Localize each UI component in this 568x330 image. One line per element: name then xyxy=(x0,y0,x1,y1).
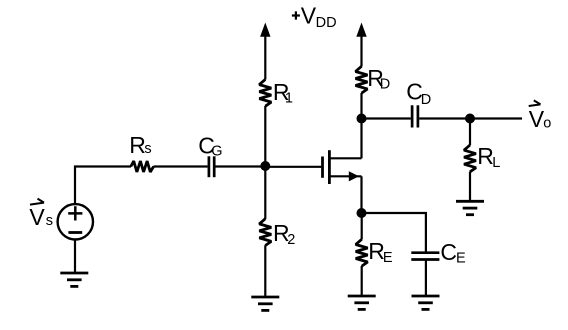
+VDD supply arrow right xyxy=(356,23,366,37)
label RL xyxy=(477,143,500,171)
resistor R1 wire lower segment xyxy=(264,106,266,167)
svg-text:G: G xyxy=(211,144,222,160)
svg-text:R: R xyxy=(129,132,146,158)
label CG xyxy=(198,132,222,159)
svg-text:1: 1 xyxy=(285,91,293,107)
MOSFET Q1 drain lead xyxy=(331,157,362,159)
label R2 xyxy=(273,220,295,248)
svg-text:D: D xyxy=(421,92,431,108)
resistor RE xyxy=(356,239,368,266)
svg-text:2: 2 xyxy=(287,232,295,248)
MOSFET Q1 channel bar xyxy=(328,150,331,184)
wire from CG to gate node and MOSFET gate xyxy=(216,165,323,168)
resistor R2 wire upper segment xyxy=(264,167,266,220)
svg-text:V: V xyxy=(301,3,317,29)
MOSFET Q1 source lead xyxy=(331,175,362,177)
svg-text:DD: DD xyxy=(316,15,337,31)
svg-text:D: D xyxy=(380,77,390,93)
label RE xyxy=(368,238,393,266)
voltage source Vs xyxy=(58,204,93,239)
wire from Rs to capacitor CG xyxy=(154,165,208,167)
svg-text:E: E xyxy=(456,250,466,266)
ground under RE xyxy=(348,296,376,309)
gate node junction dot xyxy=(260,161,270,171)
wire from output node to Vo terminal xyxy=(470,117,522,119)
wire from Vs bottom to ground xyxy=(74,240,76,274)
capacitor CE xyxy=(411,253,439,260)
label Rs xyxy=(129,132,151,158)
MOSFET Q1 gate bar xyxy=(321,157,324,178)
ground under Vs xyxy=(60,273,88,286)
svg-text:o: o xyxy=(543,115,551,131)
label Vo xyxy=(529,100,552,132)
label CE xyxy=(440,239,466,266)
resistor RD wire lower segment xyxy=(360,93,362,119)
resistor RE wire lower segment xyxy=(361,266,363,296)
wire from Vs top to resistor Rs xyxy=(75,167,131,205)
output node junction dot xyxy=(465,114,475,124)
MOSFET Q1 source arrow xyxy=(349,171,359,181)
resistor RL wire lower segment xyxy=(469,172,471,202)
ground under RL xyxy=(456,201,484,214)
resistor R2 xyxy=(259,219,271,246)
resistor R1 xyxy=(259,79,271,106)
svg-text:s: s xyxy=(46,213,53,229)
svg-text:L: L xyxy=(492,155,500,171)
capacitor CG xyxy=(209,156,214,177)
svg-text:s: s xyxy=(144,141,151,157)
source node junction dot xyxy=(357,208,367,218)
label RD xyxy=(367,65,390,93)
svg-text:V: V xyxy=(29,204,45,230)
drain node junction dot xyxy=(357,114,367,124)
wire from MOSFET drain up to drain node xyxy=(360,119,362,159)
wire from CE bottom to ground xyxy=(425,261,427,297)
capacitor CD xyxy=(412,105,418,127)
resistor RE wire upper segment xyxy=(361,213,363,240)
wire from source node to capacitor CE xyxy=(362,213,426,252)
label CD xyxy=(406,79,431,108)
wire from MOSFET source down to source node xyxy=(360,176,362,213)
resistor RD wire upper segment xyxy=(360,36,362,67)
wire from CD to output node xyxy=(419,117,470,119)
resistor Rs xyxy=(131,161,154,172)
resistor RD xyxy=(356,66,368,93)
svg-text:C: C xyxy=(440,239,457,265)
label +VDD xyxy=(292,3,337,31)
label R1 xyxy=(273,79,293,106)
resistor R2 wire lower segment xyxy=(264,245,266,297)
resistor RL xyxy=(464,145,476,172)
ground under R2 xyxy=(251,297,279,310)
svg-text:E: E xyxy=(383,250,393,266)
+VDD supply arrow left xyxy=(260,23,270,37)
resistor R1 wire upper segment xyxy=(264,36,266,80)
ground under CE xyxy=(412,296,440,309)
resistor RL wire upper segment xyxy=(469,119,471,146)
label Vs xyxy=(29,199,53,230)
wire from drain node to capacitor CD xyxy=(362,117,411,119)
